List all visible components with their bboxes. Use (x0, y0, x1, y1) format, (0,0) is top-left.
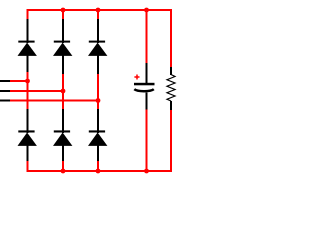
wire: phase C horizontal red (10, 100, 99, 102)
wire: leg1 top red stub (27, 9, 29, 20)
wire: phase C input stub (black) (0, 100, 10, 102)
wire: leg3 bottom red stub (97, 161, 99, 172)
junction dot: top rail / leg3 (96, 8, 101, 13)
wire: bottom DC- rail (red) (27, 170, 173, 172)
wire: leg2 bottom red stub (62, 161, 64, 172)
capacitor C1 polarity plus sign (red) (134, 75, 139, 80)
wire: phase B horizontal red (10, 90, 64, 92)
wire: phase A horizontal red (10, 80, 29, 82)
junction dot: phase B / leg2 (61, 89, 66, 94)
diode D6 (bottom, leg3) (88, 130, 107, 146)
wire: phase A input stub (black) (0, 80, 10, 82)
diode D3 (top, leg3) (88, 41, 107, 56)
diode D1 (top, leg1) (18, 41, 37, 56)
wire: leg2 top red stub (62, 9, 64, 20)
junction dot: phase A / leg1 (25, 79, 30, 84)
wire: leg1 mid red segment (phase A net) (27, 72, 29, 110)
wire: phase B input stub (black) (0, 90, 10, 92)
diode D4 (bottom, leg1) (18, 130, 37, 146)
wire: top DC+ rail (red) (27, 9, 173, 11)
wire: leg3 mid red segment (phase C net) (97, 74, 99, 110)
wire: leg2 black segments (diode pin stubs) (62, 19, 64, 161)
wire: leg2 mid red segment (phase B net) (62, 74, 64, 110)
junction dot: bottom rail / capacitor branch (144, 169, 149, 174)
capacitor C1 top plate (134, 83, 155, 86)
junction dot: top rail / capacitor branch (144, 8, 149, 13)
wire: leg3 black segments (diode pin stubs) (97, 19, 99, 161)
diode D2 (top, leg2) (53, 41, 72, 56)
wire: capacitor branch lower red (146, 109, 148, 172)
resistor R1 pin stubs (black) (170, 67, 172, 110)
diode D5 (bottom, leg2) (53, 130, 72, 146)
junction dot: phase C / leg3 (96, 98, 101, 103)
capacitor C1 pin stubs (black) (146, 63, 148, 110)
wire: leg3 top red stub (97, 9, 99, 20)
junction dot: bottom rail / leg3 (96, 169, 101, 174)
wire: leg1 bottom red stub (27, 161, 29, 172)
capacitor C1 bottom curved plate (134, 89, 154, 91)
wire: resistor branch upper red (170, 9, 172, 67)
wire: leg1 black segments (diode pin stubs) (27, 19, 29, 161)
resistor R1 zigzag (167, 75, 175, 102)
junction dot: bottom rail / leg2 (61, 169, 66, 174)
wire: capacitor branch upper red (146, 9, 148, 64)
junction dot: top rail / leg2 (61, 8, 66, 13)
wire: resistor branch lower red (170, 110, 172, 173)
